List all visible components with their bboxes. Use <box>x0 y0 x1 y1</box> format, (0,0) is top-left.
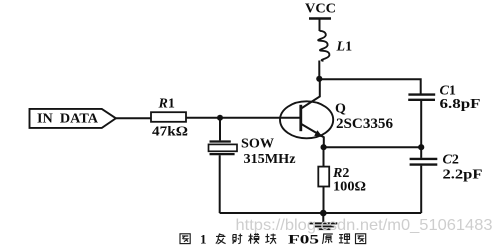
svg-text:Q: Q <box>335 102 346 117</box>
svg-text:1: 1 <box>200 232 207 246</box>
svg-text:L1: L1 <box>336 40 353 55</box>
svg-text:C2: C2 <box>443 153 459 168</box>
svg-text:315MHz: 315MHz <box>244 151 296 166</box>
svg-text:47kΩ: 47kΩ <box>152 125 188 140</box>
svg-text:SOW: SOW <box>241 135 275 150</box>
svg-text:6.8pF: 6.8pF <box>440 97 481 112</box>
svg-text:https://blog.csdn.net/m0_51061: https://blog.csdn.net/m0_51061483 <box>236 217 493 234</box>
svg-text:VCC: VCC <box>305 1 336 16</box>
svg-text:IN DATA: IN DATA <box>37 112 99 127</box>
svg-text:F05: F05 <box>288 232 320 246</box>
svg-text:2.2pF: 2.2pF <box>443 167 483 182</box>
svg-text:2SC3356: 2SC3356 <box>336 116 393 132</box>
svg-text:R1: R1 <box>158 97 175 112</box>
svg-text:100Ω: 100Ω <box>333 179 366 194</box>
